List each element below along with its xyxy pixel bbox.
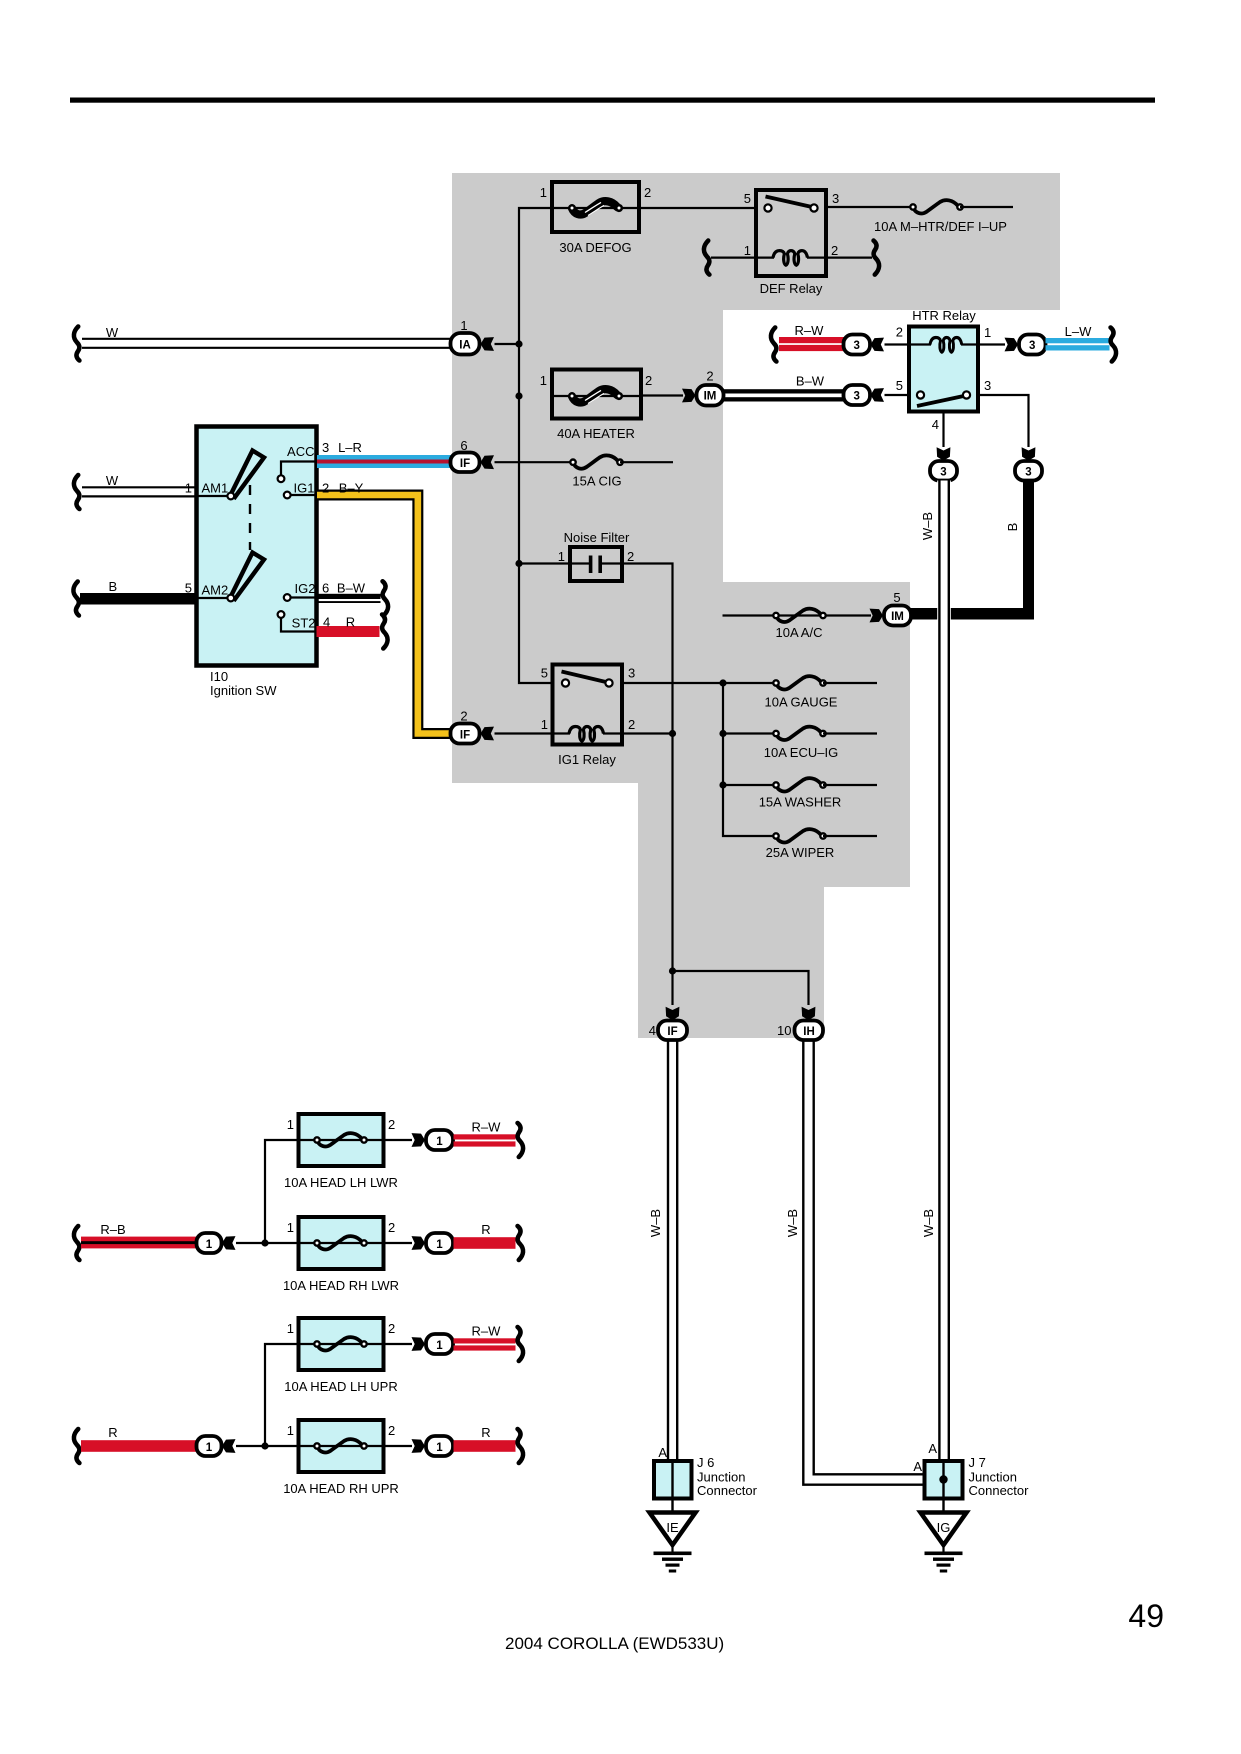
wire R bbox=[454, 1440, 516, 1452]
wire R bbox=[454, 1237, 516, 1249]
svg-text:40A HEATER: 40A HEATER bbox=[557, 426, 635, 441]
svg-text:2: 2 bbox=[896, 325, 903, 340]
svg-text:W: W bbox=[106, 473, 119, 488]
wire: HTR Relay pin 4 down to connector 3 bbox=[942, 411, 944, 447]
svg-text:3: 3 bbox=[853, 340, 859, 352]
top rule bbox=[70, 98, 1155, 103]
svg-text:1: 1 bbox=[185, 481, 192, 496]
svg-text:5: 5 bbox=[893, 590, 900, 605]
svg-text:15A WASHER: 15A WASHER bbox=[759, 795, 842, 810]
wire B-Y from IG1 down to IF bbox=[317, 495, 451, 734]
svg-text:R–W: R–W bbox=[472, 1120, 502, 1135]
connector 1 (R lower right) bbox=[426, 1436, 453, 1456]
wire: LH UPR pin 2 to connector bbox=[384, 1343, 413, 1345]
svg-text:1: 1 bbox=[436, 1340, 443, 1352]
wire: 30A DEFOG to DEF Relay pin 5 bbox=[639, 207, 756, 209]
ST2 contact bbox=[281, 618, 317, 632]
svg-text:B–W: B–W bbox=[337, 581, 366, 596]
node: bus to Noise Filter bbox=[515, 560, 522, 567]
svg-text:4: 4 bbox=[323, 615, 330, 630]
svg-text:10A HEAD RH UPR: 10A HEAD RH UPR bbox=[283, 1481, 399, 1496]
ignition switch I10 bbox=[197, 427, 317, 666]
fuse 10A HEAD LH UPR bbox=[299, 1318, 384, 1370]
svg-text:10A HEAD LH UPR: 10A HEAD LH UPR bbox=[284, 1379, 397, 1394]
connector 1 (R-W lower) bbox=[426, 1334, 453, 1354]
svg-text:DEF Relay: DEF Relay bbox=[760, 281, 823, 296]
ground IG bbox=[921, 1513, 967, 1546]
svg-text:ST2: ST2 bbox=[292, 616, 316, 631]
svg-text:5: 5 bbox=[896, 378, 903, 393]
svg-text:IF: IF bbox=[667, 1026, 677, 1038]
fuse 10A HEAD RH UPR bbox=[299, 1420, 384, 1472]
svg-text:3: 3 bbox=[853, 391, 859, 403]
wire R-B to connector 1 bbox=[74, 1226, 79, 1260]
connector 1 (R-W upper) bbox=[426, 1130, 453, 1150]
wire W to connector IA bbox=[74, 327, 79, 361]
svg-text:Connector: Connector bbox=[697, 1483, 758, 1498]
wire: 40A HEATER pin 2 to IM bbox=[641, 394, 683, 396]
svg-text:3: 3 bbox=[628, 666, 635, 681]
svg-text:L–R: L–R bbox=[338, 440, 362, 455]
fuse 10A ECU-IG bbox=[723, 732, 776, 734]
svg-text:3: 3 bbox=[984, 378, 991, 393]
wire L-R from ACC to IF bbox=[317, 455, 451, 460]
svg-text:1: 1 bbox=[287, 1117, 294, 1132]
svg-text:2: 2 bbox=[388, 1117, 395, 1132]
wire R-W bbox=[454, 1338, 516, 1343]
wire W-B from IF to J6 bbox=[667, 1040, 669, 1461]
ground IE bbox=[650, 1513, 696, 1546]
svg-text:2: 2 bbox=[388, 1321, 395, 1336]
svg-text:R–W: R–W bbox=[472, 1324, 502, 1339]
wire B to AM2 bbox=[73, 582, 78, 616]
svg-text:A: A bbox=[658, 1445, 667, 1460]
wire: main feed bus from 30A DEFOG down to IG1 relay pin 5 bbox=[519, 208, 553, 683]
fuse 25A WIPER bbox=[773, 829, 825, 842]
wire W to AM1 bbox=[74, 475, 79, 509]
svg-text:R: R bbox=[108, 1425, 117, 1440]
wire: connector to RH LWR pin 1 bbox=[236, 1242, 299, 1244]
svg-text:1: 1 bbox=[287, 1220, 294, 1235]
svg-text:W–B: W–B bbox=[648, 1209, 663, 1237]
svg-text:IF: IF bbox=[460, 730, 470, 742]
wire R-W to connector 3 bbox=[771, 328, 776, 362]
svg-text:10A M–HTR/DEF I–UP: 10A M–HTR/DEF I–UP bbox=[874, 219, 1007, 234]
svg-text:J 6: J 6 bbox=[697, 1455, 714, 1470]
wire B: thick black from connector 3 down and left to IM bbox=[1023, 481, 1034, 620]
fuse 10A M-HTR/DEF I-UP bbox=[910, 200, 962, 213]
svg-text:2: 2 bbox=[322, 481, 329, 496]
contact arm AM2 bbox=[231, 553, 264, 600]
fuse 10A HEAD RH LWR bbox=[299, 1217, 384, 1269]
relay IG1 Relay bbox=[553, 665, 623, 745]
wire B-W from IG2 bbox=[317, 594, 381, 599]
svg-text:AM1: AM1 bbox=[202, 481, 229, 496]
svg-text:W: W bbox=[106, 325, 119, 340]
wire: 3 to HTR Relay pin 5 bbox=[885, 394, 910, 396]
svg-text:25A WIPER: 25A WIPER bbox=[766, 845, 835, 860]
IG1 contact bbox=[291, 494, 317, 496]
svg-text:2: 2 bbox=[388, 1220, 395, 1235]
svg-text:4: 4 bbox=[932, 417, 939, 432]
fuse 10A A/C bbox=[773, 609, 825, 622]
svg-text:W–B: W–B bbox=[785, 1209, 800, 1237]
svg-text:10: 10 bbox=[777, 1023, 791, 1038]
wire: 10A A/C to IM bbox=[723, 614, 872, 616]
svg-text:R–B: R–B bbox=[100, 1222, 125, 1237]
svg-text:5: 5 bbox=[185, 581, 192, 596]
node: noise filter wire to coil row bbox=[669, 730, 676, 737]
svg-text:R: R bbox=[481, 1222, 490, 1237]
svg-text:Noise Filter: Noise Filter bbox=[564, 530, 630, 545]
svg-text:Connector: Connector bbox=[969, 1483, 1030, 1498]
svg-text:10A HEAD RH LWR: 10A HEAD RH LWR bbox=[283, 1278, 399, 1293]
svg-text:3: 3 bbox=[1025, 467, 1031, 479]
svg-text:6: 6 bbox=[322, 581, 329, 596]
wire: LH LWR pin 2 to connector bbox=[384, 1139, 413, 1141]
wire: HTR Relay pin 1 to connector 3 bbox=[978, 343, 1005, 345]
wire: DEF Relay pin 2 stub bbox=[826, 257, 872, 259]
connector 1 (R-B) bbox=[197, 1233, 222, 1253]
svg-text:3: 3 bbox=[940, 467, 946, 479]
gray panel fuse block bbox=[638, 582, 910, 887]
connector 3 (pin 3, B) bbox=[1015, 461, 1042, 481]
svg-text:I10: I10 bbox=[210, 669, 228, 684]
wire: IF to 15A CIG bbox=[495, 461, 574, 463]
svg-text:1: 1 bbox=[287, 1423, 294, 1438]
svg-text:IM: IM bbox=[704, 391, 717, 403]
svg-text:W–B: W–B bbox=[921, 1209, 936, 1237]
svg-text:30A DEFOG: 30A DEFOG bbox=[559, 240, 631, 255]
svg-text:1: 1 bbox=[540, 185, 547, 200]
svg-text:IH: IH bbox=[803, 1026, 815, 1038]
svg-text:1: 1 bbox=[206, 1442, 213, 1454]
svg-text:B: B bbox=[1005, 523, 1020, 532]
gray panel top block bbox=[452, 173, 1060, 310]
svg-text:B–Y: B–Y bbox=[339, 481, 364, 496]
svg-text:1: 1 bbox=[558, 549, 565, 564]
wire: IF to IG1 relay pin 1 bbox=[495, 732, 553, 734]
wire: DEF Relay pin 1 stub bbox=[711, 257, 756, 259]
wire: noise filter pin 2 down to IG1 relay coil row bbox=[602, 564, 673, 972]
svg-text:IF: IF bbox=[460, 458, 470, 470]
ACC contact bbox=[281, 462, 317, 476]
gray panel left column bbox=[452, 309, 723, 783]
svg-text:3: 3 bbox=[832, 191, 839, 206]
svg-text:2: 2 bbox=[831, 243, 838, 258]
svg-text:Ignition SW: Ignition SW bbox=[210, 683, 277, 698]
svg-text:1: 1 bbox=[206, 1239, 213, 1251]
gray panel descender bbox=[638, 783, 824, 1038]
svg-text:10A ECU–IG: 10A ECU–IG bbox=[764, 745, 838, 760]
svg-text:10A GAUGE: 10A GAUGE bbox=[765, 695, 838, 710]
svg-text:L–W: L–W bbox=[1065, 324, 1092, 339]
fuse 15A WASHER bbox=[723, 784, 776, 786]
wire: IG1 relay pin 2 stub bbox=[622, 732, 673, 734]
svg-text:2: 2 bbox=[627, 549, 634, 564]
svg-text:1: 1 bbox=[540, 373, 547, 388]
svg-text:B: B bbox=[108, 579, 117, 594]
wire: LH UPR pin 1 branch bbox=[265, 1344, 299, 1446]
svg-text:1: 1 bbox=[541, 717, 548, 732]
svg-text:R–W: R–W bbox=[795, 323, 825, 338]
svg-text:3: 3 bbox=[322, 440, 329, 455]
svg-text:1: 1 bbox=[460, 318, 467, 333]
wire B-W from IM to 3 bbox=[724, 389, 844, 393]
svg-text:2: 2 bbox=[645, 373, 652, 388]
svg-text:1: 1 bbox=[436, 1239, 443, 1251]
connector 1 (R left) bbox=[197, 1436, 222, 1456]
svg-text:IM: IM bbox=[891, 611, 904, 623]
fuse 40A HEATER bbox=[552, 370, 641, 419]
svg-text:IG1: IG1 bbox=[294, 481, 315, 496]
svg-text:W–B: W–B bbox=[920, 512, 935, 540]
svg-text:2: 2 bbox=[706, 369, 713, 384]
svg-text:5: 5 bbox=[541, 666, 548, 681]
wire: HTR Relay pin 3 down to connector 3 bbox=[978, 395, 1029, 447]
mechanical link dashes bbox=[249, 485, 251, 550]
svg-text:10A A/C: 10A A/C bbox=[776, 625, 823, 640]
wire: RH LWR pin 2 to connector bbox=[384, 1242, 413, 1244]
svg-text:2: 2 bbox=[388, 1423, 395, 1438]
IG2 contact bbox=[291, 596, 317, 598]
svg-text:HTR Relay: HTR Relay bbox=[912, 308, 976, 323]
fuse bus bbox=[722, 683, 724, 785]
svg-text:3: 3 bbox=[1029, 340, 1035, 352]
svg-text:1: 1 bbox=[744, 243, 751, 258]
svg-text:2: 2 bbox=[628, 717, 635, 732]
svg-text:2: 2 bbox=[460, 709, 467, 724]
wire: DEF Relay pin 3 to 10A M-HTR/DEF I-UP bbox=[826, 206, 913, 208]
fuse 10A HEAD LH LWR bbox=[299, 1114, 384, 1166]
svg-text:R: R bbox=[481, 1425, 490, 1440]
svg-text:5: 5 bbox=[744, 191, 751, 206]
wire W-B from IH to J7 bbox=[803, 1040, 924, 1485]
node: bus to IA connector bbox=[515, 340, 522, 347]
svg-text:1: 1 bbox=[984, 325, 991, 340]
fuse 30A DEFOG bbox=[552, 182, 639, 232]
svg-text:10A HEAD LH LWR: 10A HEAD LH LWR bbox=[284, 1175, 398, 1190]
fuse 10A GAUGE bbox=[723, 682, 776, 684]
svg-text:B–W: B–W bbox=[796, 374, 825, 389]
svg-text:49: 49 bbox=[1128, 1598, 1164, 1634]
svg-text:IG: IG bbox=[937, 1520, 951, 1535]
contact arm AM1 bbox=[231, 451, 264, 498]
svg-text:15A CIG: 15A CIG bbox=[572, 474, 621, 489]
relay DEF Relay bbox=[756, 190, 826, 276]
connector 3 (B-W) bbox=[844, 385, 871, 405]
svg-text:A: A bbox=[928, 1441, 937, 1456]
node: bus to 40A HEATER bbox=[515, 392, 522, 399]
wire R to connector 1 bbox=[74, 1429, 79, 1463]
wire R-W bbox=[454, 1134, 516, 1139]
svg-text:1: 1 bbox=[436, 1442, 443, 1454]
connector 3 (L-W) bbox=[1019, 335, 1046, 355]
wire: connector to RH UPR pin 1 bbox=[236, 1445, 299, 1447]
svg-text:IG2: IG2 bbox=[295, 581, 316, 596]
wire L-W bbox=[1046, 338, 1110, 343]
wire R from ST2 bbox=[317, 626, 380, 637]
connector 3 (pin 4, W-B) bbox=[930, 461, 957, 481]
svg-text:ACC: ACC bbox=[287, 444, 314, 459]
svg-text:2004 COROLLA (EWD533U): 2004 COROLLA (EWD533U) bbox=[505, 1634, 724, 1653]
connector 1 (R upper) bbox=[426, 1233, 453, 1253]
wire: RH UPR pin 2 to connector bbox=[384, 1445, 413, 1447]
svg-text:R: R bbox=[346, 615, 355, 630]
connector 3 (R-W) bbox=[844, 335, 871, 355]
wire: IA to bus bbox=[495, 343, 520, 345]
svg-text:2: 2 bbox=[644, 185, 651, 200]
ignition switch internals bbox=[197, 495, 231, 497]
svg-text:IG1 Relay: IG1 Relay bbox=[558, 752, 616, 767]
svg-text:A: A bbox=[913, 1459, 922, 1474]
fuse 15A CIG bbox=[570, 455, 622, 468]
svg-text:1: 1 bbox=[287, 1321, 294, 1336]
wire: IG1 relay pin 3 to fuse bus bbox=[622, 682, 723, 684]
svg-text:J 7: J 7 bbox=[969, 1455, 986, 1470]
svg-text:IA: IA bbox=[459, 340, 471, 352]
wire W-B from connector 3 down to J7 bbox=[937, 481, 951, 1462]
svg-text:IE: IE bbox=[666, 1520, 679, 1535]
svg-text:1: 1 bbox=[436, 1136, 443, 1148]
wire: 3 to HTR Relay pin 2 bbox=[885, 343, 910, 345]
svg-text:4: 4 bbox=[649, 1023, 656, 1038]
svg-text:AM2: AM2 bbox=[202, 583, 229, 598]
wire: down to IF / IH connectors bbox=[669, 967, 676, 974]
wire: LH LWR pin 1 branch bbox=[265, 1140, 299, 1243]
